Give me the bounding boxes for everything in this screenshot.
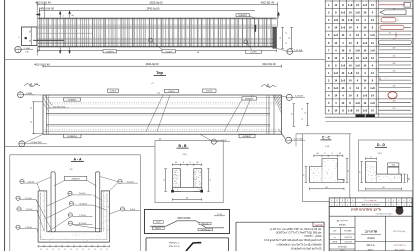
svg-text:b'n0 jpw0 5u'7 w05 n0b-pbw5 ww: b'n0 jpw0 5u'7 w05 n0b-pbw5 ww' 05u5 jpw… [264, 238, 322, 242]
bar shape row11 hooked left [379, 79, 411, 81]
svg-text:1+8: 1+8 [334, 33, 339, 37]
svg-text:B#BMW: B#BMW [68, 100, 75, 102]
svg-text:T-01.0: T-01.0 [129, 209, 136, 211]
svg-text:0O5TOnY O'TTn'T1 Pw0TT,05) 050: 0O5TOnY O'TTn'T1 Pw0TT,05) 050.ybr [276, 231, 322, 235]
svg-text:0: 0 [388, 200, 389, 202]
svg-text:40(2-0) 61 40: 40(2-0) 61 40 [35, 1, 51, 5]
svg-text:0: 0 [398, 200, 399, 202]
svg-text:1+8: 1+8 [348, 18, 353, 22]
section C-C hatch dots [324, 171, 327, 174]
svg-text:100 c.w: 100 c.w [366, 244, 375, 247]
svg-text:050: 050 [392, 165, 395, 167]
right tick marker in beam [255, 25, 257, 32]
plan left end hatch [43, 98, 51, 109]
plan label box 3 [203, 89, 217, 92]
svg-text:40(2-0) 61 40: 40(2-0) 61 40 [34, 62, 50, 66]
section B-B feet [171, 190, 174, 193]
svg-text:P.O-WEL: P.O-WEL [344, 231, 352, 233]
svg-text:30: 30 [389, 33, 391, 35]
svg-text:8: 8 [347, 200, 348, 202]
beam right end cap hatched [273, 27, 277, 48]
section A-A callout L1 [16, 196, 20, 200]
section A-A dowel bar left [51, 172, 55, 232]
svg-text:1.00CX: 1.00CX [110, 91, 117, 93]
svg-text:2.00C5: 2.00C5 [168, 91, 175, 93]
svg-text:1+8: 1+8 [348, 56, 353, 60]
plan label box 1 [108, 89, 119, 92]
svg-text:250: 250 [393, 108, 396, 110]
left column rows [329, 227, 355, 229]
beam top chord [38, 17, 277, 19]
svg-text:שדח ןיינב: שדח ןיינב [365, 229, 378, 233]
bar shape row14 straight [379, 102, 411, 104]
section A-A callout C1 [68, 191, 72, 195]
svg-text:1+8: 1+8 [363, 94, 368, 98]
svg-text:2022-0q 00: 2022-0q 00 [149, 1, 163, 5]
bar shape row1 hooked bar [379, 4, 405, 6]
svg-text:20: 20 [393, 8, 395, 10]
svg-text:2-T0 JNR: 2-T0 JNR [294, 50, 303, 52]
svg-text:2.w/b7t: 2.w/b7t [165, 50, 172, 53]
plan slab outline [43, 95, 282, 134]
plan right vertical dimension 1 [293, 104, 295, 127]
sheet border right [412, 0, 414, 251]
svg-text:7.01.073: 7.01.073 [344, 241, 351, 243]
section A-A bottom dimension [38, 245, 109, 247]
svg-text:0: 0 [404, 200, 405, 202]
svg-text:1+8: 1+8 [341, 63, 346, 67]
beam bottom chord [38, 46, 277, 48]
company logo [396, 207, 404, 215]
section D-D top right box [388, 167, 399, 174]
svg-text:N-T0.00: N-T0.00 [79, 223, 87, 225]
section A-A callout L3 [16, 225, 20, 229]
callout circle in beam right [244, 40, 248, 44]
svg-text:T-01.00: T-01.00 [127, 181, 135, 183]
plan dimension line [43, 65, 282, 67]
svg-text:JTL-T (7)Lr'7p: JTL-T (7)Lr'7p [393, 230, 405, 233]
svg-text:- TP?T/TR' Ta: - TP?T/TR' Ta [393, 245, 407, 247]
label box below beam 3 [246, 50, 262, 53]
svg-text:T-T1.00: T-T1.00 [79, 215, 87, 217]
svg-text::תורעה: :תורעה [314, 224, 322, 227]
section A-A callout L2 [17, 207, 21, 211]
svg-text:B - B: B - B [179, 144, 187, 148]
revision table [329, 198, 412, 207]
svg-text:7-01.P72: 7-01.P72 [344, 237, 352, 239]
section C-C step shape [310, 159, 345, 183]
svg-text:40: 40 [175, 162, 177, 164]
bar shape row7 straight [379, 49, 411, 51]
svg-text:N-T0.00: N-T0.00 [80, 203, 88, 205]
bar schedule footer [325, 116, 413, 118]
section A-A callout L0 [20, 180, 24, 184]
svg-text:8: 8 [190, 162, 191, 164]
svg-text:T-01.00: T-01.00 [79, 193, 87, 195]
svg-text:2.w/b7t: 2.w/b7t [250, 51, 257, 54]
elevation extension lines left [36, 2, 38, 56]
svg-text:JM 7?? P???: JM 7?? P??? [336, 220, 349, 222]
beam dark stirrups [41, 18, 43, 46]
svg-text:b0: b0 [393, 38, 395, 40]
section D-D left dim [361, 162, 363, 183]
plan revision squiggle right [261, 85, 276, 88]
plan label box bottom right [239, 135, 255, 138]
svg-text:1+8: 1+8 [341, 11, 346, 15]
svg-text:(P(P(E): (P(P(E) [339, 224, 346, 226]
svg-text:0: 0 [409, 200, 410, 202]
section B-B side dims [165, 169, 167, 192]
plan circle top left [18, 92, 24, 98]
section A-A leader web [37, 177, 51, 183]
bar shape row10 straight [379, 72, 411, 74]
svg-text:B#BMW7: B#BMW7 [243, 136, 252, 138]
bar shape row4 loop [380, 25, 404, 29]
plan label box 2 [165, 89, 179, 92]
detail box 2 bar [186, 243, 201, 251]
svg-text:17-20: 17-20 [217, 214, 223, 216]
bar schedule table grid [324, 0, 326, 114]
svg-text:2#MW7|: 2#MW7| [106, 51, 114, 53]
svg-text:7: 7 [20, 96, 21, 98]
section A-A callout R1 [118, 180, 122, 184]
svg-text:T-01.00: T-01.00 [27, 181, 35, 183]
svg-text:WTW: WTW [332, 241, 337, 243]
section D-D frame [358, 140, 412, 191]
section A-A wall dots [39, 218, 42, 221]
svg-text:C - C: C - C [322, 136, 330, 140]
bottom rebar anchorage at left end [33, 39, 64, 41]
svg-text:T-11.00: T-11.00 [26, 209, 34, 211]
svg-text:מ"עב םיסדנהמ לוגיע: מ"עב םיסדנהמ לוגיע [351, 208, 382, 212]
svg-text:300: 300 [393, 85, 396, 87]
section mark circle bottom left [15, 46, 21, 52]
svg-text:/7b0'Tn - ybO0: /7b0'Tn - ybO0 [304, 234, 322, 238]
svg-text:40(2-0)1 40: 40(2-0)1 40 [262, 62, 276, 66]
svg-text:380: 380 [393, 63, 396, 65]
svg-text:1+8: 1+8 [348, 71, 353, 75]
svg-text:050'b'10(5b0: 050'b'10(5b0 [177, 218, 191, 220]
plan label box left inner [64, 98, 81, 101]
bar shape row6 long capsule [379, 40, 412, 45]
section C-C frame [302, 134, 304, 202]
bar shape row9 straight [379, 64, 411, 66]
svg-text:8: 8 [337, 200, 338, 202]
svg-text:2-1&b5: 2-1&b5 [24, 48, 32, 50]
svg-text:D - D: D - D [377, 143, 385, 147]
svg-text:1+8: 1+8 [341, 78, 346, 82]
section B-B hatch dots [174, 171, 177, 174]
svg-text:A - A: A - A [73, 157, 82, 161]
svg-text:1+8: 1+8 [370, 48, 375, 52]
svg-text:1+8: 1+8 [334, 86, 339, 90]
svg-text:20M(17): 20M(17) [72, 179, 80, 181]
svg-text:7: 7 [21, 145, 22, 147]
svg-text:107b 107.01: 107b 107.01 [168, 246, 180, 248]
notes header cell [313, 222, 324, 226]
section B-B bottom dimension [172, 199, 201, 201]
section B-B frame [155, 141, 223, 203]
section C-C bottom dimension [310, 188, 345, 190]
plan bottom dotted band [45, 129, 279, 131]
plan circle bottom middle [211, 139, 216, 144]
svg-text:1+8: 1+8 [355, 11, 360, 15]
section B-B top dimension [172, 164, 201, 166]
beam top rebar band [38, 24, 277, 26]
beam grey stirrup bars [39, 18, 41, 46]
svg-text:8: 8 [371, 157, 372, 159]
section C-C top dimension [314, 155, 343, 157]
svg-text:1+8: 1+8 [341, 26, 346, 30]
svg-text:8: 8 [342, 200, 343, 202]
detail box 1 frame [145, 210, 230, 234]
plan circle bottom left [19, 141, 25, 147]
plan diagonal leaders [146, 95, 163, 131]
plan left end lines [46, 95, 48, 134]
svg-text:1+8: 1+8 [355, 101, 360, 105]
bar shape row5 bar with tick [379, 34, 411, 36]
svg-text:2022-0q 00: 2022-0q 00 [145, 62, 159, 66]
svg-text:45: 45 [409, 178, 411, 180]
svg-text:5'u, n'nup nw: 5'u, n'nup nw [365, 200, 377, 202]
svg-text:350: 350 [393, 70, 396, 72]
svg-text:1T0 5P0 0TT0: 1T0 5P0 0TT0 [53, 106, 65, 108]
frame separator elevation/plan [5, 59, 326, 61]
section D-D hatch dots [374, 174, 377, 177]
svg-text:40: 40 [197, 162, 199, 164]
right vertical dimension 1 [282, 28, 284, 49]
svg-text:1+8: 1+8 [355, 48, 360, 52]
svg-text:WTW TA3: WTW TA3 [338, 246, 347, 249]
svg-text:1+8: 1+8 [363, 109, 368, 113]
svg-text:1+8: 1+8 [348, 109, 353, 113]
svg-text:400: 400 [393, 55, 396, 57]
elevation bottom dimension line [38, 50, 277, 52]
title block verticals [354, 216, 356, 251]
svg-text:n 0b0w0b ]n 'ut p'5w'7b 1w ]5u: n 0b0w0b ]n 'ut p'5w'7b 1w ]5u 0b0w0b [276, 242, 322, 246]
plan internal lines [46, 107, 270, 109]
section A-A frame [10, 154, 141, 156]
plan circle top right [286, 94, 292, 100]
section D-D right dims [404, 174, 406, 182]
svg-text:1+8: 1+8 [334, 18, 339, 22]
plan right end hatch [273, 95, 281, 113]
svg-text:2-1&b5 JNR: 2-1&b5 JNR [31, 142, 42, 144]
section A-A callout R2 [120, 207, 124, 211]
svg-text:1+8: 1+8 [370, 33, 375, 37]
section mark circle bottom right [287, 49, 293, 55]
section A-A callout C4 [68, 221, 72, 225]
detail box 1 bar profile [150, 221, 224, 228]
bar shape row8 straight [379, 57, 411, 59]
svg-text:T-11.00: T-11.00 [25, 227, 33, 229]
svg-text:40(2-0)1 40: 40(2-0)1 40 [261, 1, 275, 5]
bar shape row13 ring [388, 92, 397, 99]
svg-text:L: L [386, 78, 387, 80]
svg-text:1+8: 1+8 [355, 63, 360, 67]
down arrows below beam [59, 51, 61, 54]
svg-text:T-01.00: T-01.00 [25, 198, 33, 200]
callout circle in beam mid [149, 38, 153, 42]
section B-B left wall [172, 169, 180, 192]
svg-text:1+8: 1+8 [334, 71, 339, 75]
label box above beam right [236, 14, 250, 17]
svg-text:B#BMW-8: B#BMW-8 [68, 136, 78, 138]
svg-text:1:65: 1:65 [25, 52, 29, 54]
svg-text:8: 8 [353, 200, 354, 202]
svg-text:mttr: mttr [333, 230, 337, 233]
section C-C side dim [305, 167, 307, 183]
frame plan bottom right span [296, 133, 351, 135]
bar shape row12 straight [379, 87, 411, 89]
svg-text:1+8: 1+8 [370, 101, 375, 105]
bar shape row3 small loop [381, 18, 396, 22]
svg-text:10-70: 10-70 [156, 222, 161, 224]
svg-text:]b'ub0w0 n'b 5w0 ]w'7b 05: ]b'ub0w0 n'b 5w0 ]w'7b 05 [291, 246, 322, 250]
plan revision squiggle left [24, 84, 40, 87]
svg-text:1+8: 1+8 [348, 3, 353, 7]
detail box 1 labels [153, 221, 163, 224]
section D-D top small dim [365, 158, 376, 160]
plan left vertical dimension [33, 102, 35, 134]
plan label box bottom [64, 134, 82, 138]
svg-text:1+8: 1+8 [363, 3, 368, 7]
right vertical dimension 2 [291, 28, 293, 49]
svg-text:|P0 1-70: |P0 1-70 [202, 223, 209, 225]
section D-D step shape [365, 162, 401, 183]
svg-text:תינכת: תינכת [367, 237, 374, 240]
svg-text:280: 280 [393, 101, 396, 103]
svg-text:8: 8 [332, 153, 333, 155]
bar shape row2 arrow bar [380, 10, 406, 15]
section A-A callout C2 [69, 202, 73, 206]
svg-text:2P/0 0q 00: 2P/0 0q 00 [147, 7, 160, 11]
svg-text:Top: Top [156, 70, 164, 75]
svg-text:8: 8 [398, 20, 399, 22]
svg-text:2: 2 [20, 93, 21, 95]
svg-text:8: 8 [325, 153, 326, 155]
elevation top dimension line 2 [40, 10, 256, 12]
plan right end lines [266, 95, 268, 134]
svg-text:0: 0 [393, 200, 394, 202]
svg-text:B#BMW7: B#BMW7 [245, 99, 254, 101]
section D-D bottom dimension [365, 188, 401, 190]
svg-text:070 150-14: 070 150-14 [201, 229, 210, 231]
svg-text:ww.Tb5n'0 5w 05b'u: ww.Tb5n'0 5w 05b'u [376, 213, 393, 215]
svg-text:420: 420 [393, 48, 396, 50]
label box below beam 1 [103, 50, 117, 53]
svg-text:4P(2-0)4 00: 4P(2-0)4 00 [40, 7, 54, 11]
bar shape row15 straight [379, 109, 411, 111]
svg-text:2-1&b5: 2-1&b5 [26, 93, 32, 95]
section B-B right wall [194, 169, 202, 192]
frame plan bottom left span [5, 146, 155, 148]
up arrow top right [278, 12, 280, 15]
plan label box right inner [242, 97, 257, 100]
svg-text:2.00C5: 2.00C5 [206, 91, 213, 93]
section A-A dowel bar right [96, 172, 100, 232]
section A-A wall outline [38, 191, 109, 242]
company name row [329, 215, 412, 217]
up arrow marks above beam [59, 11, 61, 14]
plan circle bottom right [286, 137, 292, 143]
svg-text:1+8: 1+8 [363, 56, 368, 60]
svg-text:1+8: 1+8 [363, 41, 368, 45]
detail box 2 frame [146, 237, 229, 239]
label box below beam 2 [162, 50, 176, 53]
section A-A callout C3 [68, 213, 72, 217]
plan right vertical dimension 2 [307, 103, 309, 125]
section B-B slab [172, 187, 201, 191]
svg-text:40: 40 [317, 153, 319, 155]
svg-text:4-5 h(7)8: 4-5 h(7)8 [295, 96, 303, 98]
svg-text:8: 8 [183, 162, 184, 164]
left arrow marker [36, 13, 40, 15]
beam left end block [22, 27, 38, 46]
elevation top dimension line 1 [37, 4, 277, 6]
svg-text:100-0.1: 100-0.1 [155, 228, 161, 230]
svg-text:8: 8 [331, 200, 332, 202]
section A-A inner wall lines [40, 193, 42, 240]
beam bottom rebar band [38, 37, 277, 39]
notes box frame [236, 221, 324, 223]
elevation extension lines right [276, 2, 278, 28]
svg-text:yn 02 'b-n yno w05b-'TbP' un: yn 02 'b-n yno w05b-'TbP' un r'0nb-nw 05… [270, 227, 322, 231]
svg-text:1+8: 1+8 [370, 86, 375, 90]
section A-A top label [65, 176, 87, 180]
plan top dotted band [45, 102, 279, 104]
sheet border left [4, 0, 6, 251]
svg-text:40: 40 [339, 153, 341, 155]
svg-text:B#BMW7: B#BMW7 [238, 15, 247, 17]
title block outer [329, 207, 412, 251]
svg-text:NVPQ'U 2: NVPQ'U 2 [169, 243, 180, 245]
